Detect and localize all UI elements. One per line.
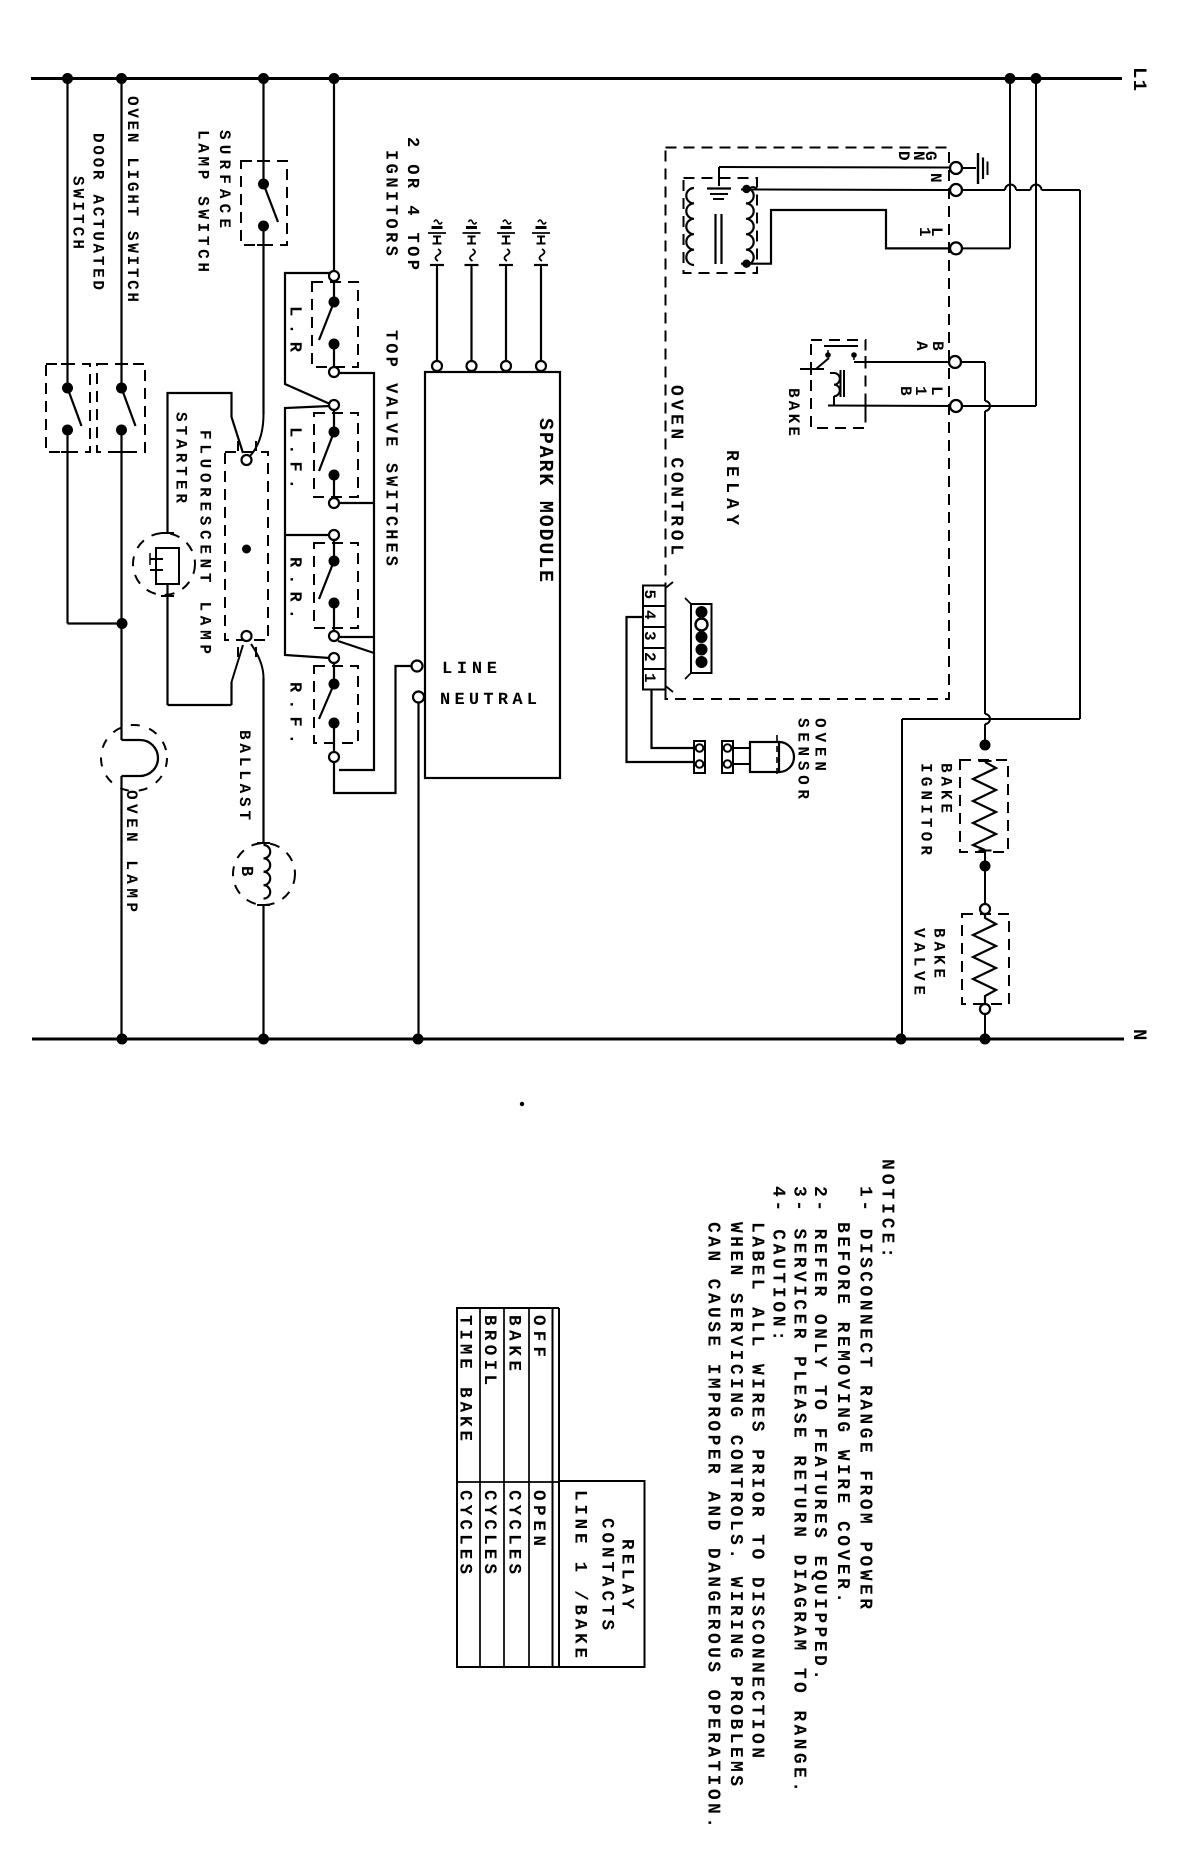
wire pin4 to sensor [627, 617, 695, 762]
svg-text:R.R.: R.R. [285, 557, 304, 619]
wire coil to L1B terminal [833, 396, 835, 406]
relay K1 contact bar [824, 345, 858, 347]
node junction on N rail [413, 1034, 424, 1045]
ground symbol [962, 167, 976, 169]
contact points [696, 606, 708, 618]
tick [161, 595, 174, 597]
node junction on L1 rail [1031, 73, 1042, 84]
relay connector divider [643, 647, 666, 649]
tick [865, 356, 867, 368]
terminal [329, 752, 339, 762]
wire secondary to L1 terminal [741, 210, 950, 264]
node junction on N rail [980, 1034, 991, 1045]
node junction on N rail [117, 1034, 128, 1045]
terminal NEUTRAL [413, 692, 424, 703]
wire stub from R.R. output [339, 636, 374, 638]
tick [865, 400, 867, 412]
svg-text:OVEN CONTROL: OVEN CONTROL [666, 385, 686, 555]
node junction on L1 rail [1005, 73, 1016, 84]
svg-text:OFF: OFF [528, 1315, 548, 1357]
connector half A [694, 741, 705, 773]
node junction on L1 rail [62, 73, 73, 84]
svg-text:VALVE: VALVE [910, 928, 928, 995]
switch S1 door actuated (oven light) [46, 364, 90, 452]
svg-text:BEFORE REMOVING WIRE COVER.: BEFORE REMOVING WIRE COVER. [832, 1222, 852, 1603]
terminal [329, 498, 339, 508]
tick [810, 363, 812, 375]
speck [520, 1102, 524, 1106]
tick [161, 532, 174, 534]
svg-text:CAN CAUSE IMPROPER AND DANGERO: CAN CAUSE IMPROPER AND DANGEROUS OPERATI… [703, 1222, 723, 1828]
node [980, 740, 991, 751]
terminal B [949, 356, 961, 368]
table header box [559, 1481, 645, 1667]
wire stub to R.R. input [285, 534, 329, 536]
tick [115, 363, 128, 365]
contact [62, 425, 73, 436]
wire L1 supply rail [31, 77, 1122, 80]
starter V1 bulb outline [133, 533, 195, 595]
inductor ballast coil [264, 845, 271, 899]
svg-text:DOOR ACTUATED: DOOR ACTUATED [89, 133, 107, 290]
svg-text:SPARK MODULE: SPARK MODULE [533, 418, 556, 582]
ignitor electrode 3 [503, 220, 511, 224]
switch R.F. top valve [314, 666, 358, 743]
svg-text:L.R: L.R [285, 306, 304, 353]
wire [333, 281, 335, 302]
spark module box [425, 372, 560, 778]
svg-text:BALLAST: BALLAST [235, 730, 253, 820]
node junction [117, 618, 128, 629]
blade [319, 684, 334, 719]
svg-text:B: B [236, 866, 255, 876]
svg-text:N: N [1128, 1029, 1150, 1040]
terminal [980, 1004, 990, 1014]
tick [979, 850, 992, 852]
terminal spark module output 2 [467, 361, 477, 371]
wire [436, 268, 438, 361]
contact [258, 179, 269, 190]
node [742, 260, 750, 268]
svg-text:TIME BAKE: TIME BAKE [455, 1315, 475, 1441]
wire B terminal to bake ignitor [961, 361, 985, 363]
wire GND lead [719, 166, 950, 169]
wire [984, 866, 986, 904]
node junction on L1 rail [329, 73, 340, 84]
wire R.F. output to spark module LINE [334, 666, 411, 793]
contact [116, 383, 127, 394]
resistor bake ignitor [973, 762, 996, 850]
svg-text:2- REFER ONLY TO FEATURES EQUI: 2- REFER ONLY TO FEATURES EQUIPPED. [809, 1186, 829, 1680]
blade [319, 561, 334, 599]
starter contacts [150, 558, 163, 560]
node gas dot [242, 545, 251, 554]
wire [333, 540, 335, 561]
wire [120, 79, 122, 384]
wire stub from L.F. output [339, 502, 374, 504]
terminal L1 [950, 242, 962, 254]
svg-text:3: 3 [640, 631, 658, 641]
tick [115, 451, 128, 453]
tick [979, 760, 992, 762]
svg-text:B: B [896, 386, 914, 396]
contact [258, 221, 269, 232]
svg-text:L1: L1 [1128, 67, 1150, 91]
svg-text:4: 4 [640, 610, 658, 620]
switch L.R. top valve [312, 282, 358, 367]
relay K1 coil [830, 373, 840, 396]
svg-text:1: 1 [640, 673, 658, 683]
transformer T1 enclosure [684, 178, 758, 273]
svg-text:SURFACE: SURFACE [215, 130, 233, 228]
relay connector divider [643, 605, 666, 607]
terminal filament lower [242, 631, 252, 641]
svg-text:FLUORESCENT LAMP: FLUORESCENT LAMP [196, 430, 214, 654]
svg-text:OVEN: OVEN [811, 718, 829, 771]
svg-text:OPEN: OPEN [528, 1490, 548, 1546]
svg-text:BAKE: BAKE [937, 763, 955, 813]
relay connector divider [643, 626, 666, 628]
svg-text:BAKE: BAKE [930, 928, 948, 978]
wire [333, 723, 335, 752]
svg-text:LINE: LINE [442, 660, 497, 679]
terminal spark module output 1 [432, 361, 442, 371]
wire [333, 410, 335, 432]
wire [505, 268, 507, 361]
tick [61, 451, 74, 453]
terminal GND [950, 162, 962, 174]
wire valve output bus [339, 373, 374, 770]
terminal [329, 631, 339, 641]
wire [66, 79, 68, 384]
svg-text:OVEN LAMP: OVEN LAMP [122, 790, 140, 912]
svg-text:1: 1 [915, 227, 933, 237]
wire [262, 226, 264, 414]
contact [329, 598, 340, 609]
wire [540, 268, 542, 361]
node [980, 861, 991, 872]
tick [257, 244, 270, 246]
contact [329, 297, 340, 308]
svg-text:NEUTRAL: NEUTRAL [440, 691, 537, 710]
svg-text:CYCLES: CYCLES [504, 1490, 524, 1574]
terminal LINE [412, 661, 423, 672]
wire [251, 644, 264, 678]
tick [257, 904, 270, 906]
svg-text:3- SERVICER PLEASE RETURN DIAG: 3- SERVICER PLEASE RETURN DIAGRAM TO RAN… [789, 1186, 809, 1792]
lamp fluorescent tube [225, 452, 268, 640]
terminal [980, 904, 990, 914]
transformer T1 core [714, 214, 716, 264]
blade [68, 388, 82, 426]
svg-text:RELAY: RELAY [617, 1539, 637, 1609]
svg-text:R.F.: R.F. [285, 682, 304, 744]
oven control box [666, 148, 950, 700]
starter V1 body [156, 548, 179, 584]
switch S2 door actuated [97, 364, 145, 452]
svg-text:5: 5 [640, 590, 658, 600]
ignitor electrode 4 [538, 220, 546, 224]
transformer T1 secondary winding [746, 188, 754, 265]
wire [333, 344, 335, 367]
ignitor electrode 2 [469, 220, 477, 224]
relay K1 contacts [825, 352, 831, 358]
relay connector divider [643, 668, 666, 670]
ignitor electrode 1 [434, 220, 442, 224]
table grid [457, 1308, 553, 1667]
wire [262, 905, 264, 1039]
wire [984, 1014, 986, 1039]
svg-text:SENSOR: SENSOR [794, 718, 812, 799]
wire L1 terminal to rail [962, 247, 1010, 249]
wire secondary to N terminal [741, 189, 950, 192]
terminal [329, 271, 339, 281]
contact [62, 383, 73, 394]
terminal [329, 400, 339, 410]
svg-text:WHEN SERVICING CONTROLS. WIRIN: WHEN SERVICING CONTROLS. WIRING PROBLEMS [725, 1222, 745, 1786]
switch R.R. top valve [314, 543, 358, 628]
wire valve input bypass 1 [285, 273, 330, 404]
svg-text:BAKE: BAKE [784, 388, 802, 436]
relay K1 bake enclosure [811, 340, 866, 428]
resistor bake ignitor enclosure [960, 760, 1008, 852]
svg-text:IGNITOR: IGNITOR [917, 763, 935, 855]
svg-text:LINE 1 /BAKE: LINE 1 /BAKE [570, 1490, 590, 1658]
tick [257, 842, 270, 844]
tick [61, 363, 74, 365]
svg-text:D: D [894, 151, 912, 161]
transformer T1 primary winding [686, 188, 694, 265]
wire [262, 79, 264, 184]
lamp oven lamp envelope [101, 725, 167, 791]
svg-text:NOTICE:: NOTICE: [877, 1159, 897, 1258]
blade [319, 302, 334, 340]
blade [264, 184, 279, 222]
connector hooks [666, 582, 674, 588]
relay contact strip [691, 604, 712, 673]
terminal spark module output 3 [501, 361, 511, 371]
wire [120, 776, 122, 1039]
wire [470, 268, 472, 361]
wire N neutral rail [32, 1038, 1124, 1041]
svg-text:LABEL ALL WIRES PRIOR TO DISCO: LABEL ALL WIRES PRIOR TO DISCONNECTION [747, 1222, 767, 1758]
terminal [329, 653, 339, 663]
contact [329, 556, 340, 567]
connector half B [722, 741, 733, 773]
tick [237, 647, 239, 657]
wire [333, 79, 335, 272]
wire [333, 475, 335, 498]
terminal [329, 367, 339, 377]
svg-text:CONTACTS: CONTACTS [597, 1518, 617, 1630]
svg-text:A: A [912, 341, 930, 351]
resistor bake valve enclosure [962, 914, 1009, 1004]
wire starter loop [168, 393, 244, 534]
wire [984, 851, 986, 866]
wire L1B riser [1035, 79, 1037, 407]
relay K1 armature [816, 358, 829, 369]
terminal L1B [950, 400, 962, 412]
svg-text:CYCLES: CYCLES [479, 1490, 499, 1574]
terminal [329, 530, 339, 540]
resistor bake valve [973, 914, 996, 1004]
wire [66, 430, 68, 624]
svg-text:2 OR 4 TOP: 2 OR 4 TOP [402, 137, 421, 270]
terminal N [950, 184, 962, 196]
terminal spark module output 4 [536, 361, 546, 371]
node junction on N rail [896, 1034, 907, 1045]
svg-text:2: 2 [640, 652, 658, 662]
svg-text:LAMP SWITCH: LAMP SWITCH [194, 130, 212, 272]
wire pin1 to sensor [652, 690, 695, 749]
svg-text:SWITCH: SWITCH [69, 176, 87, 249]
wire [733, 747, 750, 749]
node [742, 185, 750, 193]
contact [116, 425, 127, 436]
blade [122, 388, 136, 426]
tick [257, 160, 270, 162]
contact [329, 339, 340, 350]
svg-text:RELAY: RELAY [721, 450, 741, 525]
wire N terminal to neutral return [962, 189, 1005, 191]
ballast B enclosure [233, 843, 295, 905]
node junction on L1 rail [116, 73, 127, 84]
terminal filament upper [242, 455, 252, 465]
oven sensor bulb [750, 742, 779, 772]
switch S3 surface lamp switch [241, 161, 287, 245]
node junction on L1 rail [258, 73, 269, 84]
svg-text:L.F.: L.F. [285, 427, 304, 489]
svg-text:BAKE: BAKE [504, 1315, 524, 1371]
svg-text:N: N [926, 173, 944, 183]
contact [329, 718, 340, 729]
wire [166, 584, 168, 705]
lamp oven lamp filament [122, 740, 159, 776]
node junction on N rail [258, 1034, 269, 1045]
wire neutral to N rail [417, 703, 419, 1040]
svg-text:STARTER: STARTER [172, 412, 190, 503]
relay connector shell [643, 586, 666, 690]
svg-text:BROIL: BROIL [479, 1315, 499, 1385]
wire valve input bypass 2 [285, 406, 330, 658]
ground transformer shield [718, 171, 720, 186]
contact [329, 427, 340, 438]
contact [329, 470, 340, 481]
tick [237, 441, 239, 451]
wire [120, 430, 122, 740]
blade [319, 432, 334, 471]
switch L.F. top valve [314, 413, 358, 497]
svg-text:IGNITORS: IGNITORS [381, 150, 400, 256]
contact [329, 679, 340, 690]
wire [333, 663, 335, 684]
svg-text:TOP VALVE SWITCHES: TOP VALVE SWITCHES [381, 330, 400, 566]
wire contact to B terminal [854, 361, 949, 363]
svg-text:4- CAUTION:: 4- CAUTION: [768, 1186, 788, 1341]
svg-text:OVEN LIGHT SWITCH: OVEN LIGHT SWITCH [123, 96, 141, 302]
wire [333, 603, 335, 631]
svg-text:1- DISCONNECT RANGE FROM POWER: 1- DISCONNECT RANGE FROM POWER [855, 1186, 875, 1609]
